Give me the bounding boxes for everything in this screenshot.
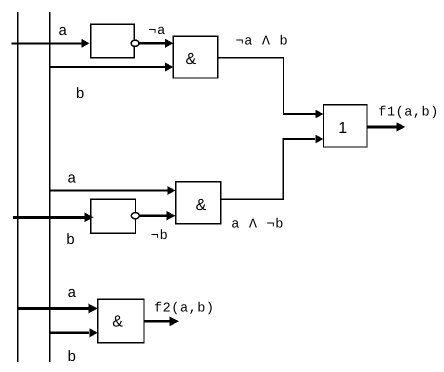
AND gate 1 bbox=[173, 36, 217, 78]
svg-text:&: & bbox=[196, 197, 207, 214]
wire a to AND2 bbox=[49, 186, 175, 195]
bus line 1 (input rail a) bbox=[17, 12, 19, 362]
svg-text:¬a: ¬a bbox=[148, 24, 166, 39]
inverter NOT1 bbox=[91, 24, 139, 58]
svg-text:&: & bbox=[112, 314, 123, 331]
wire b to AND1 bbox=[49, 63, 173, 72]
wire AND1 to OR input 1 bbox=[218, 57, 324, 119]
wire b to NOT2 (bold) bbox=[13, 213, 94, 223]
wire AND2 to OR input 2 bbox=[221, 135, 324, 201]
wire f2 output (bold) bbox=[144, 317, 179, 327]
svg-text:f2(a,b): f2(a,b) bbox=[154, 302, 215, 317]
wire f1 output (bold) bbox=[367, 122, 405, 131]
wire a to NOT1 bbox=[12, 39, 90, 48]
svg-text:b: b bbox=[67, 349, 76, 366]
svg-text:b: b bbox=[76, 86, 85, 103]
svg-text:1: 1 bbox=[338, 120, 347, 137]
wire NOT2 to AND2 (bold) bbox=[140, 211, 176, 221]
inverter NOT2 bbox=[91, 199, 140, 233]
AND gate 3 bbox=[98, 299, 144, 342]
AND gate 2 bbox=[176, 182, 221, 224]
svg-text:a: a bbox=[58, 23, 67, 40]
svg-text:f1(a,b): f1(a,b) bbox=[378, 105, 439, 120]
svg-text:b: b bbox=[66, 232, 75, 249]
bus line 2 (input rail b) bbox=[49, 12, 51, 362]
svg-text:¬b: ¬b bbox=[151, 229, 169, 244]
wire NOT1 to AND1 bbox=[139, 39, 173, 48]
svg-text:a: a bbox=[67, 171, 76, 188]
OR gate U1 bbox=[324, 105, 368, 147]
wire b to AND3 bbox=[50, 328, 98, 337]
svg-text:a Λ ¬b: a Λ ¬b bbox=[231, 218, 284, 233]
svg-text:¬a Λ b: ¬a Λ b bbox=[236, 35, 289, 50]
wire a to AND3 (bold) bbox=[18, 304, 98, 314]
svg-text:a: a bbox=[67, 285, 76, 302]
svg-text:&: & bbox=[186, 51, 197, 68]
